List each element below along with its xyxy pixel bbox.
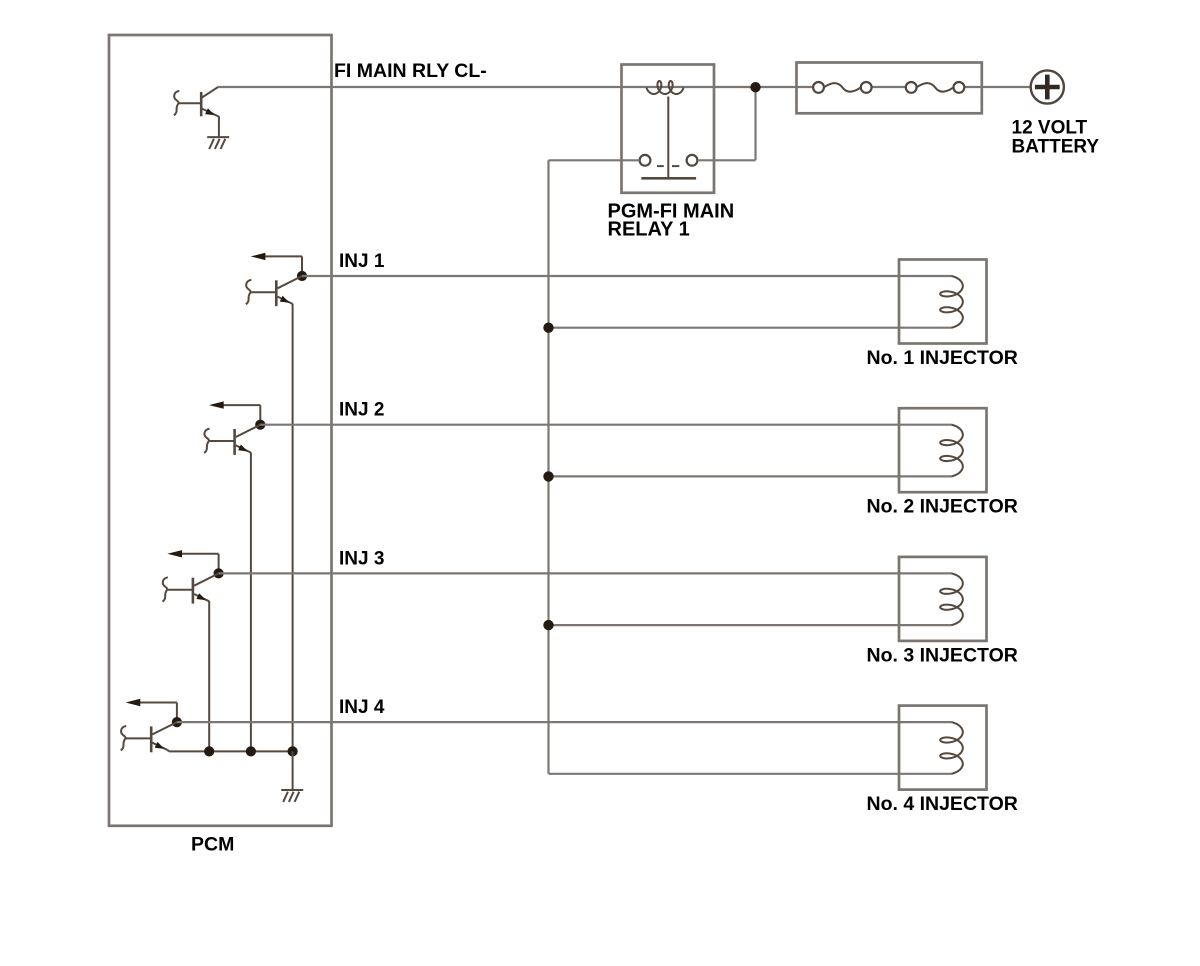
svg-text:INJ 4: INJ 4 (339, 697, 385, 718)
svg-text:PCM: PCM (191, 834, 234, 856)
svg-text:INJ 3: INJ 3 (339, 548, 384, 569)
svg-text:No. 2 INJECTOR: No. 2 INJECTOR (867, 496, 1018, 518)
svg-text:12 VOLT: 12 VOLT (1012, 117, 1088, 138)
svg-text:No. 3 INJECTOR: No. 3 INJECTOR (867, 644, 1018, 666)
svg-text:BATTERY: BATTERY (1012, 136, 1100, 157)
svg-text:No. 1 INJECTOR: No. 1 INJECTOR (867, 347, 1018, 369)
svg-text:INJ 1: INJ 1 (339, 251, 385, 272)
svg-text:RELAY 1: RELAY 1 (608, 218, 690, 240)
svg-text:INJ 2: INJ 2 (339, 400, 384, 421)
svg-text:No. 4 INJECTOR: No. 4 INJECTOR (867, 793, 1018, 815)
svg-text:FI MAIN RLY CL-: FI MAIN RLY CL- (334, 60, 487, 82)
